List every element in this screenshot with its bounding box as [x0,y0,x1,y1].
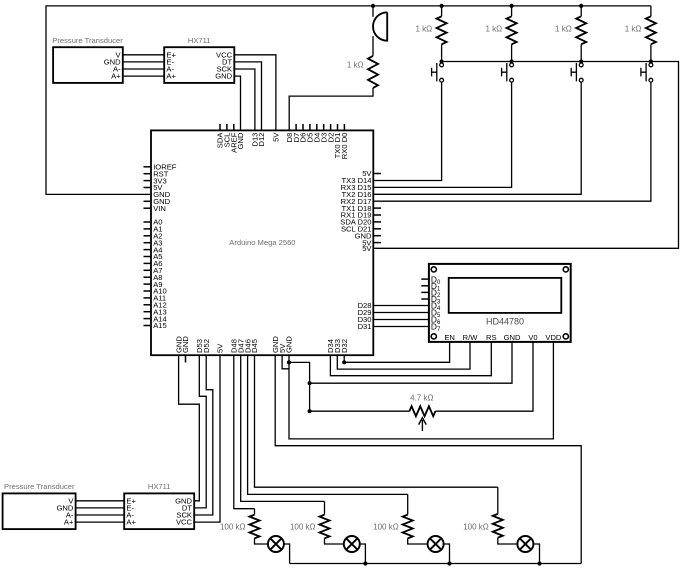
svg-text:HX711: HX711 [148,482,171,491]
wire R1 bottom lead to button S1 [441,44,443,61]
svg-text:A+: A+ [111,72,121,81]
resistor R3 1 kΩ [576,16,586,44]
pin U1 5V stub [373,173,381,175]
pin U1 IOREF stub [144,166,152,168]
wire J2 A+ to U3 [76,521,125,523]
svg-text:GND: GND [504,333,521,342]
node GND to LCD GND junction [308,381,312,385]
resistor R7 100 kΩ [320,515,330,539]
svg-text:A+: A+ [166,72,176,81]
wire R3 top lead [580,6,582,16]
pin U1 A9 stub [144,283,152,285]
svg-text:Pressure Transducer: Pressure Transducer [4,482,75,491]
wire lamp return rail [290,563,582,565]
wire GND to RV1 left lead [310,410,410,412]
svg-text:R/W: R/W [463,333,479,342]
pushbutton S1 [432,63,444,82]
resistor R5 1 kΩ (buzzer series) [368,56,378,88]
wire U2 DT to Arduino D12 [234,62,261,130]
pushbutton S2 [502,63,514,82]
pin U1 D5 stub [309,124,311,130]
pin U1 5V stub [373,242,381,244]
pin U1 TX0 D1 stub [337,124,339,130]
wire R1 top lead [441,6,443,16]
svg-text:HD44780: HD44780 [486,316,524,326]
potentiometer RV1 4.7 kΩ [409,406,435,416]
resistor R2 1 kΩ [507,16,517,44]
resistor R1 1 kΩ [437,16,447,44]
pin U1 A14 stub [144,318,152,320]
svg-text:VDD: VDD [545,333,562,342]
speaker LS1 (piezo buzzer) [373,12,387,40]
pin U1 SCL stub [226,124,228,130]
svg-text:5V: 5V [216,343,225,353]
pin LCD D1 stub [421,285,429,287]
wire U1 5V to LCD VDD [282,342,553,439]
wire J1 A+ to U2 [123,75,164,77]
svg-text:100 kΩ: 100 kΩ [290,523,316,532]
pin U1 AREF stub [233,124,235,130]
pin U1 SDA stub [219,124,221,130]
wire U2 SCK to Arduino D13 [234,69,255,130]
node GND to potentiometer junction [308,409,312,413]
wire U1 D45 to R9 [255,355,498,487]
svg-text:1 kΩ: 1 kΩ [625,24,642,33]
pin U1 RX0 D0 stub [343,124,345,130]
wire top power rail and left loop to Arduino GND pin [46,6,651,195]
wire R6 top lead [254,509,256,515]
node button S4 top junction [649,59,653,63]
pin U1 A2 stub [144,235,152,237]
svg-text:5V: 5V [362,244,372,253]
svg-text:GND: GND [285,336,294,353]
wire J2 V to U3 [76,500,125,502]
pushbutton S4 [641,63,653,82]
node GND branch bendpoint [287,360,291,364]
pin U1 D4 stub [316,124,318,130]
wire lamp LA2 to return rail [360,544,366,564]
pin U1 A11 stub [144,297,152,299]
lamp LA3 [428,536,444,552]
wire U1 GND to lamp return rail [275,355,581,563]
node lamp LA3 rail junction [447,561,451,565]
wire U1 D33 to LCD R/W [337,342,470,369]
wire RV1 right lead to LCD V0 [435,342,533,411]
wire U1 D53 to U3 DT [194,355,206,508]
svg-text:4.7 kΩ: 4.7 kΩ [410,394,433,403]
svg-text:RS: RS [486,333,497,342]
wire U1 GND branch [289,355,310,411]
pin U1 RST stub [144,173,152,175]
pin U1 5V stub [144,187,152,189]
node resistor R1 top rail junction [440,4,444,8]
wire lamp LA3 to return rail [444,544,450,564]
svg-text:Pressure Transducer: Pressure Transducer [52,36,123,45]
pin LCD D0 stub [421,278,429,280]
wire J2 GND to U3 [76,507,125,509]
wire R2 bottom lead to button S2 [511,44,513,61]
wire U1 GND to U3 GND [179,355,200,501]
wire J2 A- to U3 [76,514,125,516]
node resistor R2 top rail junction [510,4,514,8]
pin U1 D2 stub [330,124,332,130]
pin U1 3V3 stub [144,180,152,182]
svg-text:VCC: VCC [176,518,193,527]
node buzzer junction on top rail [371,4,375,8]
wire R2 top lead [511,6,513,16]
wire R9 top lead [497,487,499,514]
wire buzzer top lead [372,6,374,17]
node D32 bendpoint [342,360,346,364]
MCU U1 Arduino Mega 2560 [151,130,373,355]
wire U2 VCC to Arduino 5V top pin [234,55,276,131]
svg-text:GND: GND [236,132,245,149]
pin U1 GND stub [144,200,152,202]
wire GND to LCD GND pin [310,342,512,383]
svg-text:D52: D52 [202,339,211,353]
IC U2 HX711 (top) [164,47,234,83]
wire R7 top lead [324,501,326,514]
LCD mounting holes [431,267,568,339]
node resistor R3 top rail junction [579,4,583,8]
svg-text:GND: GND [181,336,190,353]
wire R4 top lead [650,6,652,16]
node button S3 top junction [579,59,583,63]
pin U1 D7 stub [295,124,297,130]
potentiometer RV1 wiper arrow [419,418,427,431]
pin U1 VIN stub [144,207,152,209]
wire R5 to D8 [289,88,373,130]
wire lamp LA1 to return rail [284,544,290,564]
wire U1 D46 to R8 [248,355,408,494]
svg-text:100 kΩ: 100 kΩ [220,523,246,532]
pin U1 GND stub [373,235,381,237]
pin LCD D2 stub [421,291,429,293]
pin U1 A4 stub [144,249,152,251]
connector J1 Pressure Transducer (top) [53,47,123,83]
wire U1 D52 to U3 SCK [194,355,213,515]
svg-text:1 kΩ: 1 kΩ [485,24,502,33]
wire R6 to lamp LA1 [255,538,268,544]
pin U1 A13 stub [144,311,152,313]
resistor R6 100 kΩ [250,515,260,539]
pin U1 A0 stub [144,221,152,223]
LCD module HD44780 [429,264,571,342]
wire button rail to Arduino 5V (right riser) [373,62,678,249]
wire J1 V to U2 [123,54,164,56]
wire U1 5V to U3 VCC [194,355,220,522]
pin U1 SDA D20 stub [373,221,381,223]
resistor R8 100 kΩ [403,515,413,539]
wire R4 bottom lead to button S4 [650,44,652,61]
svg-text:D32: D32 [340,339,349,353]
svg-text:HX711: HX711 [188,36,211,45]
svg-text:1 kΩ: 1 kΩ [555,24,572,33]
pin U1 RX1 D19 stub [373,214,381,216]
svg-text:D12: D12 [257,133,266,147]
pin U1 A12 stub [144,304,152,306]
pin U1 A8 stub [144,276,152,278]
svg-text:100 kΩ: 100 kΩ [373,523,399,532]
lamp LA1 [268,536,284,552]
pin U1 A15 stub [144,325,152,327]
wire button S2 to Arduino pin [373,82,511,187]
pin U1 A7 stub [144,269,152,271]
pin U1 GND bottom stub [185,355,187,362]
svg-text:EN: EN [444,333,455,342]
svg-text:D31: D31 [358,322,372,331]
wire U1 D48 to R6 [234,355,255,509]
svg-text:5V: 5V [272,132,281,142]
resistor R9 100 kΩ [493,514,503,538]
wire R8 top lead [407,494,409,514]
svg-text:RX0 D0: RX0 D0 [340,133,349,160]
svg-text:A15: A15 [153,321,167,330]
svg-text:A+: A+ [64,518,74,527]
LCD display window [449,278,562,313]
wire U2 GND to Arduino GND top pin [234,76,240,130]
wire U1 D32 to LCD EN [344,342,449,362]
IC U3 HX711 (bottom) [124,493,194,529]
wire U1 D29 to LCD D5 [373,312,429,314]
svg-text:100 kΩ: 100 kΩ [463,523,489,532]
wire U1 D34 to LCD RS [330,342,491,376]
wire R8 to lamp LA3 [408,538,428,544]
wire button S4 to Arduino pin [373,82,651,201]
pin U1 A6 stub [144,262,152,264]
svg-text:1 kΩ: 1 kΩ [415,24,432,33]
wire R3 bottom lead to button S3 [580,44,582,61]
wire button S1 to Arduino pin [373,82,441,180]
resistor R4 1 kΩ [646,16,656,44]
lamp LA2 [344,536,360,552]
wire R9 to lamp LA4 [498,538,518,544]
svg-text:D45: D45 [250,339,259,353]
pin U1 A10 stub [144,290,152,292]
pin U1 A1 stub [144,228,152,230]
pin U1 A5 stub [144,256,152,258]
wire J1 A- to U2 [123,68,164,70]
lamp LA4 [517,536,533,552]
node lamp LA2 rail junction [363,561,367,565]
wire R7 to lamp LA2 [325,538,344,544]
svg-text:VIN: VIN [153,204,166,213]
pin U1 D3 stub [323,124,325,130]
pin U1 D6 stub [302,124,304,130]
node button S1 top junction [440,59,444,63]
node button S2 top junction [510,59,514,63]
wire buzzer bottom lead to resistor [372,36,374,56]
pin U1 SCL D21 stub [373,228,381,230]
pin U1 TX1 D18 stub [373,207,381,209]
wire lamp LA4 to return rail [533,544,539,564]
node lamp LA4 rail junction [537,561,541,565]
svg-text:GND: GND [215,72,232,81]
wire J1 GND to U2 [123,61,164,63]
svg-text:Arduino Mega 2560: Arduino Mega 2560 [229,238,295,247]
wire U1 D31 to LCD D7 [373,326,429,328]
svg-text:1 kΩ: 1 kΩ [347,61,364,70]
svg-text:A+: A+ [126,518,136,527]
svg-text:V0: V0 [528,333,537,342]
wire U1 D28 to LCD D4 [373,305,429,307]
pushbutton S3 [571,63,583,82]
pin LCD D3 stub [421,298,429,300]
wire button S3 to Arduino pin [373,82,581,194]
wire U1 D47 to R7 [241,355,325,501]
connector J2 Pressure Transducer (bottom) [3,493,76,529]
wire U1 D30 to LCD D6 [373,319,429,321]
pin U1 A3 stub [144,242,152,244]
